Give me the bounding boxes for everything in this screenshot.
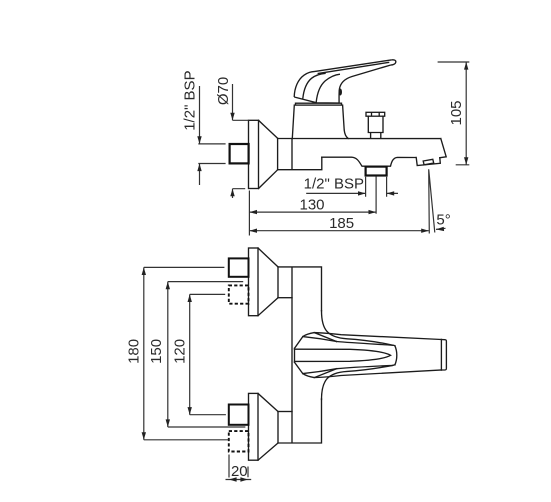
svg-text:105: 105 [448, 100, 465, 125]
svg-text:5°: 5° [436, 212, 450, 229]
svg-text:185: 185 [329, 215, 354, 232]
svg-text:180: 180 [126, 339, 143, 364]
svg-text:130: 130 [299, 196, 324, 213]
svg-text:Ø70: Ø70 [215, 77, 232, 105]
svg-text:150: 150 [148, 339, 165, 364]
svg-text:120: 120 [172, 339, 189, 364]
svg-text:1/2" BSP: 1/2" BSP [304, 176, 364, 193]
svg-text:20: 20 [231, 463, 248, 480]
svg-text:1/2" BSP: 1/2" BSP [182, 70, 199, 130]
